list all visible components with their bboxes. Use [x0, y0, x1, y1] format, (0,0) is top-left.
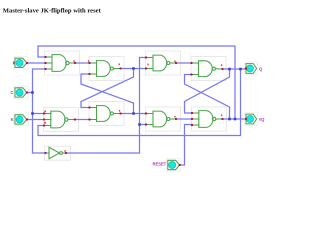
- dot pin Q: [245, 67, 247, 69]
- halo U7: [146, 107, 181, 131]
- halo U9 inverter: [45, 146, 71, 160]
- wire K to U5: [27, 119, 44, 121]
- junction Q feedback: [239, 68, 242, 71]
- nand U4 (slave latch top, Q): [192, 61, 223, 77]
- not gate U9 (clock inverter): [46, 147, 67, 158]
- dots U6 ports: [88, 106, 90, 108]
- wire U6 out to U7 in1: [121, 113, 147, 115]
- halo pin C: [14, 86, 29, 99]
- wire U3 out to U4 in1: [176, 62, 192, 64]
- nand U7 (slave input bottom): [146, 111, 176, 127]
- halo U6: [89, 102, 124, 126]
- wire U5 out to U6 in2: [75, 119, 90, 121]
- wire clock net C: [27, 92, 33, 94]
- wire junctions: [31, 67, 242, 126]
- input pin RESET: [152, 160, 179, 169]
- wire U8 out to pin notQ: [223, 118, 247, 120]
- dot pin RESET tip: [179, 164, 181, 166]
- wire J to U1: [27, 62, 46, 64]
- svg-text:C: C: [10, 90, 13, 95]
- dots U3 ports: [145, 56, 147, 58]
- input pin C (clock): [10, 88, 26, 97]
- wire U2 out to U3 in2: [121, 68, 147, 70]
- output pin Q: [246, 64, 263, 74]
- dots U1 ports: [44, 56, 46, 58]
- dots U9 ports: [44, 152, 46, 154]
- component halos: [14, 51, 258, 171]
- junction clock at C pin: [31, 91, 34, 94]
- wire U4 out to pin Q: [223, 68, 247, 70]
- gates: [44, 55, 223, 159]
- halo pin K: [14, 113, 29, 126]
- wire top feedback bus ~Q to U1 input 1: [38, 46, 235, 119]
- wire Q feedback bottom bus to U5 in3: [38, 69, 241, 136]
- halo U2: [89, 57, 124, 81]
- nand U8 (3-input slave latch bottom, ~Q, with reset): [192, 111, 223, 128]
- dot pin K tip: [26, 118, 28, 120]
- dot pin C tip: [26, 91, 28, 93]
- tiny red value marks: [44, 60, 222, 152]
- junction U4 out cross: [228, 68, 231, 71]
- wire cross P1 U2out to U6 in1: [81, 69, 134, 108]
- port connection dots: [26, 56, 247, 166]
- nand U5 (3-input, K stage): [44, 111, 75, 128]
- dots U8 ports: [191, 112, 193, 114]
- input pin K: [11, 115, 27, 124]
- halo pin RESET: [166, 159, 181, 172]
- halo pin J: [14, 57, 29, 70]
- dots U4 ports: [190, 62, 192, 64]
- svg-text:K: K: [11, 117, 14, 122]
- wire cross P2 U6out to U2 in2: [81, 74, 134, 114]
- nand U3 (slave input top): [146, 55, 176, 71]
- junction clock to U5 in1: [31, 112, 34, 115]
- nand U6 (master latch bottom): [90, 106, 121, 122]
- junction U8 out cross: [228, 118, 231, 121]
- dot pin ~Q: [245, 118, 247, 120]
- wire cross P3 U4out to U8 in1: [185, 69, 230, 113]
- junction inverted clock to U7 in2: [138, 123, 141, 126]
- dots U7 ports: [145, 112, 147, 114]
- nand U1 (3-input, J stage): [46, 55, 76, 72]
- halo U3: [146, 51, 181, 75]
- wire RESET to U8 in3: [180, 125, 192, 166]
- nand U2 (master latch top): [90, 61, 121, 77]
- halo U4: [191, 57, 226, 81]
- svg-text:RESET: RESET: [152, 161, 166, 166]
- halo U5: [44, 108, 79, 132]
- output pin ~Q: [246, 114, 265, 124]
- wire inverted clock net: [66, 58, 146, 154]
- svg-text:#Q: #Q: [259, 117, 265, 122]
- halo pin notQ: [245, 113, 258, 126]
- junction U6 out: [132, 112, 135, 115]
- halo pin Q: [245, 62, 258, 75]
- dot pin J tip: [26, 62, 28, 64]
- svg-text:Master-slave JK-flipflop with: Master-slave JK-flipflop with reset: [3, 8, 102, 15]
- halo U8: [192, 107, 227, 131]
- dots U5 ports: [43, 112, 45, 114]
- junction ~Q riser: [234, 118, 237, 121]
- wire cross P4 U8out to U4 in2: [185, 75, 230, 120]
- wire U7 out to U8 in2: [176, 118, 192, 120]
- input pin J: [13, 58, 27, 67]
- wire U1 out to U2 in1: [75, 62, 90, 64]
- halo U1: [45, 51, 80, 75]
- dots U2 ports: [88, 62, 90, 64]
- junction U2 out: [132, 67, 135, 70]
